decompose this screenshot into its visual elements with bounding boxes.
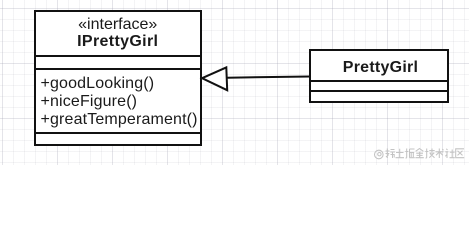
掘 (405, 148, 414, 158)
区 (456, 148, 465, 157)
社 (445, 148, 455, 157)
金 (415, 148, 423, 157)
method +goodLooking() (41, 76, 155, 92)
method +greatTemperament() (41, 112, 198, 128)
技 (425, 148, 434, 158)
术 (436, 148, 444, 158)
interface name IPrettyGirl (36, 34, 200, 50)
connector line (227, 77, 310, 78)
divider below empty attributes compartment (311, 90, 447, 92)
class name PrettyGirl (313, 60, 449, 76)
interface IPrettyGirl box (34, 10, 202, 146)
divider below empty attributes compartment (36, 68, 200, 70)
@ (375, 150, 384, 159)
divider below methods compartment (36, 132, 200, 134)
interface stereotype label (36, 17, 200, 33)
watermark @稀土掘金技术社区 (372, 146, 466, 164)
class PrettyGirl box (309, 49, 449, 103)
realization arrow from PrettyGirl to IPrettyGirl (0, 0, 469, 165)
grid background (0, 0, 469, 165)
method +niceFigure() (41, 94, 138, 110)
土 (396, 148, 405, 157)
divider below interface title (36, 55, 200, 57)
hollow triangle arrowhead (202, 67, 227, 90)
divider below class title (311, 80, 447, 82)
稀 (386, 148, 396, 158)
